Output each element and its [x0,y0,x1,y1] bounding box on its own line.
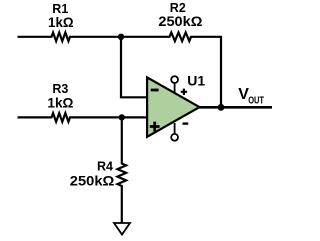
svg-text:R4: R4 [97,159,113,173]
svg-text:1kΩ: 1kΩ [47,95,73,110]
svg-text:1kΩ: 1kΩ [48,15,74,30]
svg-text:OUT: OUT [248,96,264,107]
svg-text:U1: U1 [187,73,205,89]
svg-text:R1: R1 [52,2,68,16]
svg-text:R2: R2 [170,1,186,15]
svg-text:250kΩ: 250kΩ [158,14,202,29]
svg-text:R3: R3 [52,82,68,96]
svg-text:250kΩ: 250kΩ [70,174,115,189]
